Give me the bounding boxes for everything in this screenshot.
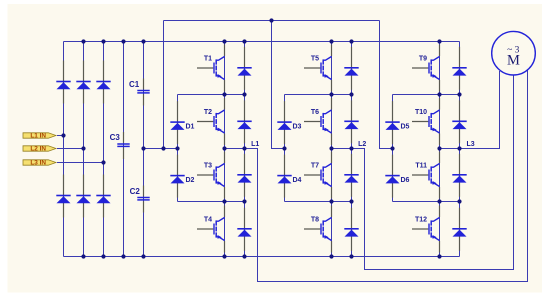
svg-text:T7: T7	[311, 162, 319, 169]
svg-text:L3: L3	[467, 141, 475, 148]
rectifier diode lower 2	[76, 175, 90, 218]
freewheel diode leg3-2	[452, 100, 466, 143]
freewheel diode leg1-4	[237, 208, 251, 251]
clamp diode D1	[170, 101, 184, 144]
svg-text:L3 IN: L3 IN	[30, 160, 46, 167]
wire: output L3 run to motor	[440, 71, 500, 149]
wire: leg3 clamp column	[392, 95, 394, 202]
wire: leg3 upper junction tie	[393, 94, 460, 96]
wire: - DC rail (bottom)	[64, 256, 460, 258]
clamp diode D6	[385, 155, 399, 198]
wire: leg2 clamp column	[284, 95, 286, 202]
capacitor C1	[137, 79, 149, 106]
input port L3 IN	[23, 160, 56, 167]
wire: + DC rail (top)	[64, 41, 460, 43]
wire: leg2 main column	[331, 42, 333, 257]
svg-text:T6: T6	[311, 109, 319, 116]
wire: neutral drop leg2	[272, 21, 285, 149]
svg-text:C1: C1	[129, 80, 140, 89]
IGBT T6	[304, 98, 332, 145]
freewheel diode leg1-3	[237, 154, 251, 197]
clamp diode D2	[170, 155, 184, 198]
freewheel diode leg2-2	[344, 100, 358, 143]
wire: rectifier column 2	[83, 42, 85, 257]
rectifier diode upper 2	[76, 61, 90, 104]
svg-text:T10: T10	[415, 109, 427, 116]
freewheel diode leg1-2	[237, 100, 251, 143]
wire: leg2 upper junction tie	[285, 94, 352, 96]
svg-text:D4: D4	[293, 177, 302, 184]
IGBT T11	[412, 152, 440, 199]
svg-text:L2 IN: L2 IN	[30, 146, 46, 153]
rectifier diode upper 3	[96, 61, 110, 104]
svg-text:D2: D2	[186, 177, 195, 184]
wire: leg3 freewheel column	[459, 42, 461, 257]
freewheel diode leg2-4	[344, 208, 358, 251]
wire: leg3 lower junction tie	[393, 201, 460, 203]
wire: neutral riser leg1	[163, 21, 165, 149]
svg-text:D3: D3	[293, 123, 302, 130]
svg-text:M: M	[507, 52, 520, 68]
svg-text:T5: T5	[311, 55, 319, 62]
wire: leg1 upper junction tie	[178, 94, 245, 96]
input port L1 IN	[23, 133, 56, 140]
IGBT T1	[197, 45, 225, 92]
svg-text:C2: C2	[130, 187, 141, 196]
capacitor C3	[117, 132, 129, 159]
svg-text:T12: T12	[415, 216, 427, 223]
IGBT T3	[197, 152, 225, 199]
wire: leg1 freewheel column	[244, 42, 246, 257]
wire: L1 IN feed	[57, 135, 64, 137]
wire: neutral drop leg3	[380, 21, 393, 149]
IGBT T7	[304, 152, 332, 199]
svg-text:D1: D1	[186, 123, 195, 130]
wire: leg2 freewheel column	[351, 42, 353, 257]
svg-text:T11: T11	[415, 162, 427, 169]
freewheel diode leg2-3	[344, 154, 358, 197]
svg-text:L2: L2	[358, 141, 366, 148]
svg-text:L1: L1	[251, 141, 259, 148]
svg-text:D5: D5	[401, 123, 410, 130]
wire: output L2 run to motor	[332, 75, 514, 270]
wire: C1/C2 column	[143, 42, 145, 257]
wire: neutral top bus	[164, 20, 380, 22]
wire: leg2 lower junction tie	[285, 201, 352, 203]
IGBT T4	[197, 206, 225, 253]
svg-text:L1 IN: L1 IN	[30, 133, 46, 140]
rectifier diode lower 3	[96, 175, 110, 218]
wire: rectifier column 3	[103, 42, 105, 257]
rectifier diode upper 1	[56, 61, 70, 104]
freewheel diode leg3-1	[452, 47, 466, 90]
rectifier diode lower 1	[56, 175, 70, 218]
motor M (3-phase)	[492, 31, 536, 75]
input port L2 IN	[23, 146, 56, 153]
svg-text:D6: D6	[401, 177, 410, 184]
wire: leg1 clamp column	[177, 95, 179, 202]
capacitor C2	[137, 186, 149, 213]
IGBT T9	[412, 45, 440, 92]
svg-text:T1: T1	[204, 55, 212, 62]
svg-text:C3: C3	[110, 133, 121, 142]
IGBT T5	[304, 45, 332, 92]
freewheel diode leg1-1	[237, 47, 251, 90]
svg-text:T9: T9	[419, 55, 427, 62]
svg-text:T3: T3	[204, 162, 212, 169]
freewheel diode leg3-4	[452, 208, 466, 251]
svg-text:T4: T4	[204, 216, 212, 223]
clamp diode D5	[385, 101, 399, 144]
wire: L2 IN feed	[57, 148, 84, 150]
wire: rectifier column 1	[63, 42, 65, 257]
svg-text:T8: T8	[311, 216, 319, 223]
wire: output L1 run to motor	[225, 71, 528, 282]
IGBT T10	[412, 98, 440, 145]
IGBT T8	[304, 206, 332, 253]
IGBT T12	[412, 206, 440, 253]
clamp diode D3	[277, 101, 291, 144]
freewheel diode leg2-1	[344, 47, 358, 90]
freewheel diode leg3-3	[452, 154, 466, 197]
wire: C3 column	[123, 42, 125, 257]
svg-text:T2: T2	[204, 109, 212, 116]
wire: leg3 main column	[439, 42, 441, 257]
wire: neutral segment caps to leg1 clamp	[144, 148, 178, 150]
wire: leg1 lower junction tie	[178, 201, 245, 203]
clamp diode D4	[277, 155, 291, 198]
IGBT T2	[197, 98, 225, 145]
wire: leg1 main column	[224, 42, 226, 257]
wire: L3 IN feed	[57, 162, 104, 164]
